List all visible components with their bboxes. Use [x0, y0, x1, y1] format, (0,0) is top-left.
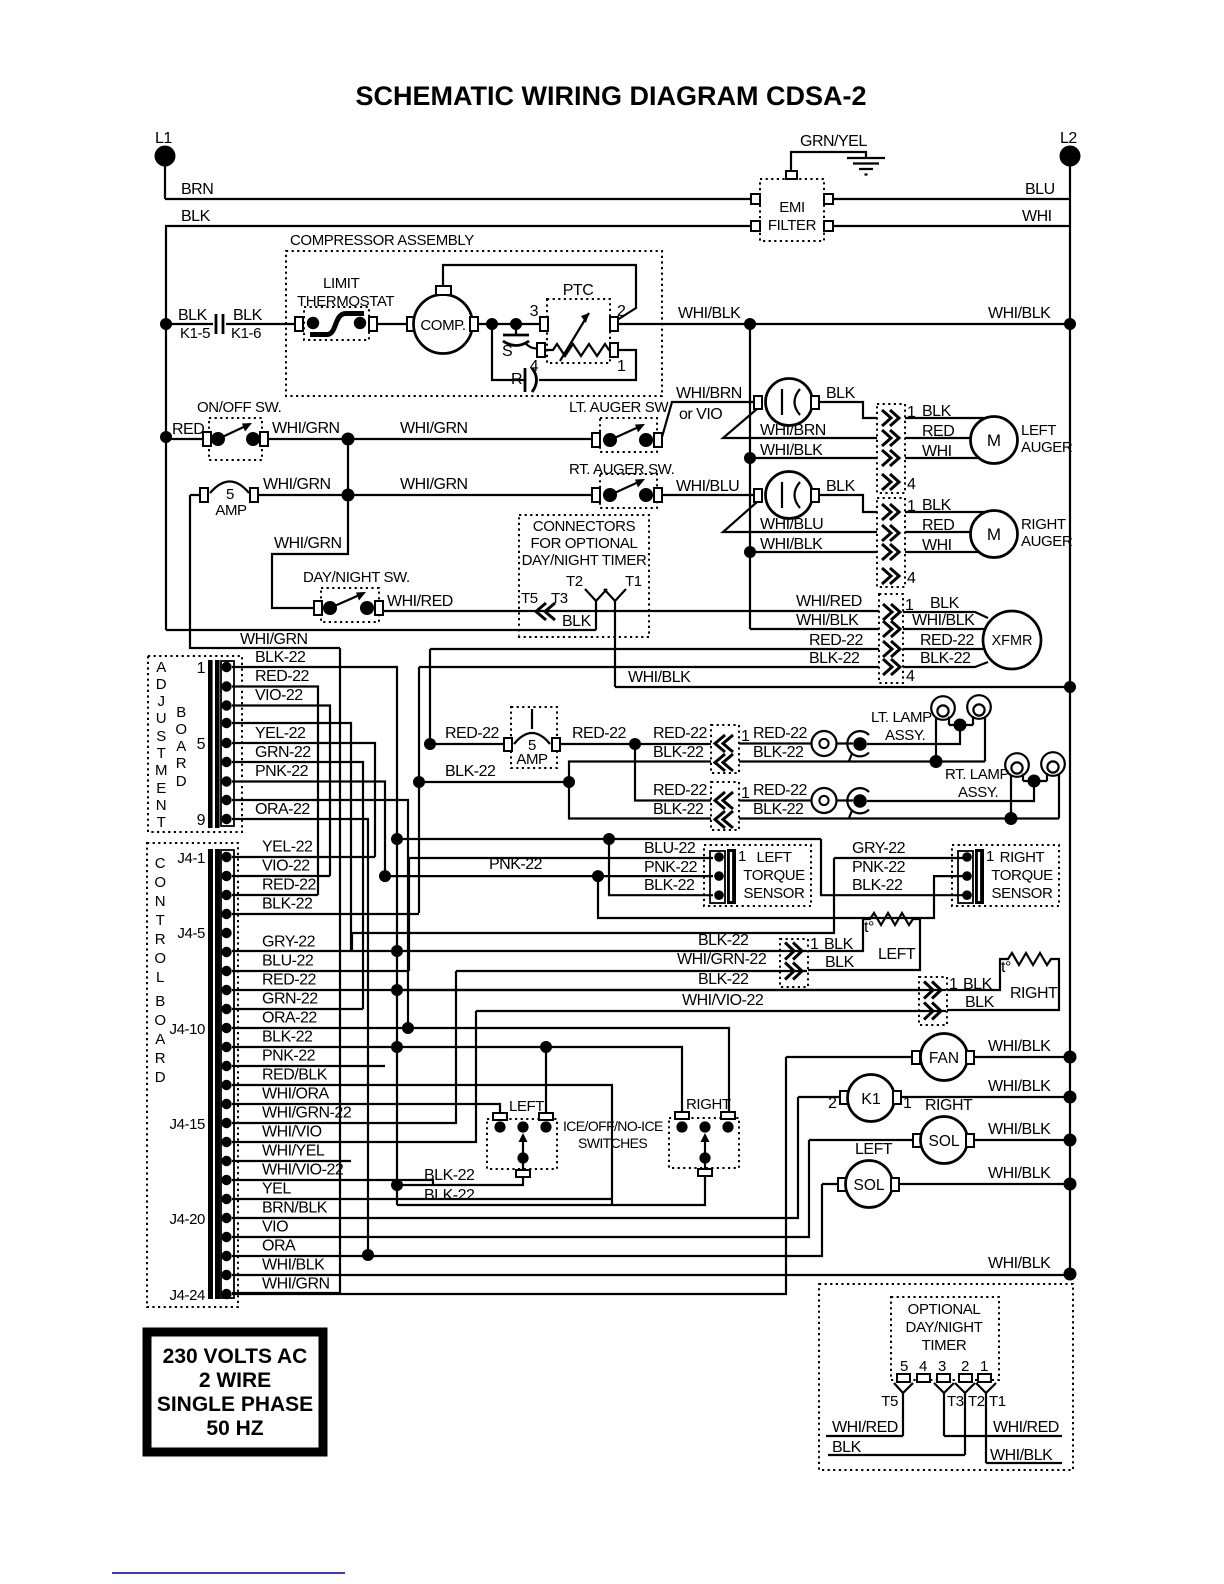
svg-text:BLK-22: BLK-22: [852, 877, 903, 894]
svg-text:M: M: [987, 431, 1001, 450]
adjustment board pins: [221, 662, 231, 824]
svg-text:T2: T2: [968, 1393, 985, 1410]
control board label2: [154, 993, 165, 1086]
wire J4-3 RED-22: [232, 877, 318, 896]
fuse F2 5 AMP: [504, 707, 560, 768]
right torque sensor: [952, 845, 1059, 906]
svg-text:O: O: [175, 721, 186, 738]
svg-text:WHI/GRN-22: WHI/GRN-22: [677, 951, 767, 968]
svg-text:LIMIT: LIMIT: [323, 275, 360, 292]
fork T2 timer: [955, 1383, 985, 1455]
svg-text:WHI/BRN: WHI/BRN: [676, 385, 742, 402]
svg-text:WHI/ORA: WHI/ORA: [262, 1086, 330, 1103]
svg-text:FAN: FAN: [929, 1050, 959, 1067]
svg-text:BLK-22: BLK-22: [653, 801, 704, 818]
svg-text:t°: t°: [864, 919, 874, 936]
svg-text:4: 4: [906, 668, 915, 685]
svg-text:BLK-22: BLK-22: [698, 971, 749, 988]
wire adjustment pin PNK-22: [232, 763, 385, 876]
svg-text:BLU-22: BLU-22: [262, 953, 314, 970]
svg-text:LT. LAMP: LT. LAMP: [871, 709, 932, 726]
svg-text:RIGHT: RIGHT: [925, 1097, 973, 1114]
wire COMP top to PTC pin2: [443, 265, 636, 322]
svg-text:TIMER: TIMER: [922, 1337, 967, 1354]
motor M1 left auger: [971, 417, 1073, 464]
wire GRY-22 to right torque sensor: [834, 840, 966, 858]
svg-text:WHI/GRN: WHI/GRN: [262, 1276, 330, 1293]
svg-text:ICE/OFF/NO-ICE: ICE/OFF/NO-ICE: [563, 1118, 663, 1134]
junction dot WHI/BLK feed row1: [744, 452, 756, 464]
motor M2 right auger: [971, 511, 1073, 558]
svg-text:3: 3: [530, 303, 539, 320]
connector fork T1: [604, 573, 642, 687]
svg-text:BLK: BLK: [562, 613, 592, 630]
wire adjustment pin RED-22: [232, 668, 318, 895]
svg-text:WHI/GRN: WHI/GRN: [263, 476, 331, 493]
svg-text:or VIO: or VIO: [679, 406, 722, 423]
svg-text:PNK-22: PNK-22: [489, 856, 543, 873]
wire BLK-22 right ice label: [424, 1187, 475, 1204]
svg-text:BLK-22: BLK-22: [262, 896, 313, 913]
svg-text:M: M: [155, 762, 167, 779]
svg-text:BRN: BRN: [181, 181, 213, 198]
wire J4-7 BLU-22: [232, 953, 409, 972]
PTC box: [530, 282, 626, 375]
svg-text:T: T: [157, 814, 166, 831]
wire RED-22 xfmr row3: [430, 632, 983, 649]
svg-text:J4-15: J4-15: [169, 1116, 205, 1133]
junction dot left ice right branch: [540, 1041, 552, 1053]
lamp bulb RT1: [1005, 753, 1029, 818]
connector CN2 right auger: [877, 498, 916, 587]
wire fuse left down WHI/GRN: [190, 495, 340, 648]
wire J4-1 YEL-22: [232, 839, 375, 858]
wire J4-24 WHI/GRN: [232, 1057, 786, 1294]
wire WHI/GRN row1: [268, 420, 593, 439]
connector CN1 left auger: [877, 404, 916, 493]
svg-text:WHI/YEL: WHI/YEL: [262, 1143, 325, 1160]
footer line: [112, 1572, 345, 1574]
svg-text:WHI/BLU: WHI/BLU: [676, 478, 739, 495]
svg-text:K1-5: K1-5: [180, 325, 210, 342]
wire BLK-22 to lt lamp: [569, 744, 711, 782]
svg-text:LT. AUGER SW.: LT. AUGER SW.: [569, 399, 671, 416]
svg-text:BLK: BLK: [826, 385, 856, 402]
svg-text:2 WIRE: 2 WIRE: [199, 1369, 271, 1392]
svg-text:WHI/BLK: WHI/BLK: [628, 669, 691, 686]
wire adjustment pin wire: [232, 800, 408, 1028]
wire RED-22 bus vertical: [429, 649, 431, 744]
wire BLK connector to right auger motor: [905, 497, 986, 514]
junction dot left rail RED row: [160, 431, 172, 443]
svg-text:WHI/GRN: WHI/GRN: [274, 535, 342, 552]
svg-text:RED-22: RED-22: [262, 877, 317, 894]
svg-text:AUGER: AUGER: [1021, 533, 1073, 550]
fork T1 timer: [976, 1383, 1006, 1463]
svg-text:U: U: [156, 710, 166, 727]
wire BLK timer: [828, 1439, 965, 1456]
adjustment board label: [155, 659, 167, 831]
svg-text:AMP: AMP: [516, 751, 548, 768]
wire BLK EMI filter to left rail: [166, 208, 752, 630]
svg-text:ON/OFF SW.: ON/OFF SW.: [197, 399, 281, 416]
switch DAY/NIGHT SW.: [303, 569, 410, 622]
wire WHI/BLK vertical feed: [749, 324, 751, 629]
junction dot BLK bus 839: [391, 833, 403, 845]
svg-text:WHI/BLK: WHI/BLK: [796, 612, 859, 629]
wire GRY-22 riser to right sensor: [352, 858, 834, 951]
svg-text:J4-20: J4-20: [169, 1211, 205, 1228]
wire J4-4 BLK-22: [232, 896, 419, 915]
svg-text:GRN/YEL: GRN/YEL: [800, 133, 867, 150]
svg-text:WHI/BLK: WHI/BLK: [988, 305, 1051, 322]
svg-text:BLK-22: BLK-22: [753, 801, 804, 818]
svg-text:9: 9: [197, 812, 206, 829]
timer pin 2: [959, 1358, 972, 1382]
svg-text:BLK-22: BLK-22: [653, 744, 704, 761]
junction dot WHI/GRN row2: [342, 489, 355, 502]
wire left ice bottom: [397, 1163, 523, 1185]
svg-text:SCHEMATIC WIRING DIAGRAM CDSA-: SCHEMATIC WIRING DIAGRAM CDSA-2: [356, 81, 867, 111]
capacitor S: [502, 324, 539, 360]
svg-text:BLK: BLK: [178, 307, 208, 324]
wire J4-19 YEL: [232, 1181, 612, 1200]
solenoid RIGHT SOL: [809, 1097, 974, 1164]
svg-text:S: S: [156, 728, 166, 745]
fan motor FAN: [786, 1034, 974, 1081]
svg-text:PNK-22: PNK-22: [255, 763, 309, 780]
svg-text:T: T: [156, 912, 165, 929]
wire WHI/GRN-22 to left temp sensor: [456, 951, 807, 971]
svg-text:A: A: [156, 659, 166, 676]
svg-text:FILTER: FILTER: [768, 217, 817, 234]
wire RED-22 to rt lamp: [635, 744, 711, 801]
svg-text:BRN/BLK: BRN/BLK: [262, 1200, 328, 1217]
timer pin 5: [897, 1358, 910, 1382]
wire WHI/BLK left sol to rail: [899, 1165, 1070, 1184]
svg-text:RIGHT: RIGHT: [686, 1096, 731, 1113]
wire PNK-22 detour to right sensor: [598, 859, 966, 918]
svg-text:D: D: [156, 676, 167, 693]
junction dot RT lamp bottom: [1005, 812, 1018, 825]
svg-text:RIGHT: RIGHT: [1010, 985, 1058, 1002]
limit thermostat: [295, 275, 394, 340]
junction dot BLK 990: [391, 984, 403, 996]
lamp socket RT: [847, 788, 869, 818]
svg-text:BLU: BLU: [1025, 181, 1055, 198]
wire adjustment pin YEL-22: [232, 725, 375, 857]
thermistor RIGHT t: [947, 953, 1059, 1011]
wire WHI/BLU rt auger to cap2: [662, 478, 755, 495]
svg-text:RED/BLK: RED/BLK: [262, 1067, 328, 1084]
svg-text:BLK-22: BLK-22: [445, 763, 496, 780]
wire J4-2 VIO-22: [232, 858, 330, 877]
connector CN6 left temp: [780, 936, 819, 987]
svg-text:BLK: BLK: [965, 994, 995, 1011]
svg-text:RIGHT: RIGHT: [1021, 516, 1066, 533]
wire adjustment pin wire: [232, 723, 351, 951]
svg-text:BLK-22: BLK-22: [424, 1187, 475, 1204]
wire WHI/RED timer left: [826, 1419, 903, 1436]
svg-text:R: R: [155, 1050, 166, 1067]
svg-text:SINGLE PHASE: SINGLE PHASE: [157, 1393, 313, 1416]
wire WHI/BLK right sol to rail: [974, 1121, 1070, 1140]
svg-text:SENSOR: SENSOR: [744, 885, 806, 902]
svg-text:1: 1: [197, 660, 206, 677]
junction dot BLK-22 J4-11: [391, 1041, 403, 1053]
svg-text:LEFT: LEFT: [855, 1141, 893, 1158]
wire RED-22 bus to fuse: [430, 725, 504, 744]
wire WHI/BLK J4-23 label: [988, 1255, 1051, 1272]
compressor motor COMP: [407, 286, 478, 354]
wire BLK cap2 to connector: [819, 478, 877, 512]
svg-text:RED-22: RED-22: [262, 972, 317, 989]
wire WHI/BLK T1 to right rail: [615, 669, 1070, 687]
svg-text:WHI/RED: WHI/RED: [796, 593, 862, 610]
svg-text:5: 5: [900, 1358, 908, 1375]
svg-text:BLU-22: BLU-22: [644, 840, 696, 857]
svg-text:DAY/NIGHT SW.: DAY/NIGHT SW.: [303, 569, 410, 586]
wire GRN/YEL: [791, 133, 867, 171]
wire WHI/RED day/night to XFMR connector: [383, 593, 879, 611]
wire BLK-22 bus to lamps: [419, 763, 569, 782]
wire adjustment pin VIO-22: [232, 687, 330, 876]
connector CN4 lt lamp: [711, 725, 750, 773]
svg-text:WHI/BRN: WHI/BRN: [760, 422, 826, 439]
svg-text:COMPRESSOR ASSEMBLY: COMPRESSOR ASSEMBLY: [290, 232, 474, 249]
wire BRN L1 to EMI filter: [165, 181, 752, 199]
svg-text:ORA-22: ORA-22: [262, 1010, 317, 1027]
svg-text:VIO-22: VIO-22: [255, 687, 303, 704]
svg-text:WHI: WHI: [1022, 208, 1052, 225]
wire PNK-22 to left torque sensor: [385, 856, 713, 876]
svg-text:YEL: YEL: [262, 1181, 291, 1198]
junction dot PNK detour: [592, 870, 604, 882]
svg-text:L1: L1: [155, 130, 172, 147]
lamp socket LT: [847, 731, 869, 761]
wire WHI EMI filter to right rail: [832, 208, 1070, 226]
svg-text:N: N: [156, 797, 166, 814]
switch right ice/off/no-ice: [669, 1096, 739, 1176]
fuse F1 5 AMP: [190, 482, 258, 520]
wire RED-22 cn4 to socket: [739, 725, 853, 744]
wire BLK-22 to left temp sensor label: [698, 932, 749, 949]
left torque sensor: [704, 845, 811, 906]
wire BLK-22 left ice label: [424, 1167, 475, 1184]
svg-text:J: J: [157, 693, 164, 710]
switch LT. AUGER SW.: [569, 399, 671, 452]
svg-text:R: R: [176, 755, 187, 772]
wire WHI/BLK main row to right rail: [618, 305, 1070, 324]
wire BLK-22 to right temp sensor: [397, 971, 946, 990]
svg-text:SWITCHES: SWITCHES: [578, 1135, 647, 1151]
svg-text:SOL: SOL: [853, 1177, 884, 1194]
wire BLK-22 bus vertical: [418, 667, 420, 913]
svg-text:T2: T2: [566, 573, 583, 590]
timer pin 3: [937, 1358, 950, 1382]
svg-text:2: 2: [961, 1358, 969, 1375]
svg-text:T1: T1: [989, 1393, 1006, 1410]
junction dot BLK 951: [391, 945, 403, 957]
wire J4-20 BRN/BLK: [232, 1097, 798, 1218]
control board: [147, 843, 238, 1307]
svg-text:B: B: [176, 704, 186, 721]
svg-text:T3: T3: [947, 1393, 964, 1410]
wire WHI/GRN vertical rows1-2 to day/night: [272, 439, 348, 608]
svg-text:RIGHT: RIGHT: [1000, 849, 1045, 866]
svg-text:ASSY.: ASSY.: [885, 727, 925, 744]
wire socket to bulbs LT: [867, 725, 973, 744]
svg-text:A: A: [176, 738, 186, 755]
svg-text:RT. AUGER SW.: RT. AUGER SW.: [569, 461, 674, 478]
svg-text:BLK: BLK: [826, 478, 856, 495]
wire J4-11 BLK-22: [232, 1029, 682, 1113]
svg-text:RED-22: RED-22: [653, 782, 708, 799]
svg-text:BLK-22: BLK-22: [809, 650, 860, 667]
svg-text:1: 1: [738, 848, 746, 865]
wire BLK-22 cn5 to socket shell: [739, 801, 1059, 819]
junction dot BLK lamp split: [563, 776, 575, 788]
wire J4-15 WHI/GRN-22: [232, 971, 456, 1123]
svg-text:A: A: [155, 1031, 165, 1048]
svg-text:WHI/VIO-22: WHI/VIO-22: [262, 1162, 344, 1179]
connectors for optional day/night timer box: [519, 515, 649, 637]
svg-text:J4-1: J4-1: [177, 850, 205, 867]
wire WHI/BLK WHI row: [750, 442, 979, 460]
timer pin 1: [978, 1358, 991, 1382]
wire WHI/GRN row2: [258, 476, 593, 495]
svg-text:BLK-22: BLK-22: [644, 877, 695, 894]
wire BLK-22 bus vertical: [396, 839, 398, 1205]
svg-text:WHI/BLK: WHI/BLK: [678, 305, 741, 322]
wire J4-10 ORA-22: [232, 1010, 729, 1113]
junction dots main row: [744, 318, 756, 330]
capacitor R: [492, 324, 636, 392]
svg-text:RED-22: RED-22: [653, 725, 708, 742]
wire COMP right to PTC pin3: [478, 323, 540, 325]
timer pin 4: [917, 1358, 930, 1382]
wire LT auger sw to run capacitor: [662, 385, 755, 437]
svg-text:GRY-22: GRY-22: [262, 934, 316, 951]
svg-text:4: 4: [907, 476, 916, 493]
wire BLK connector to left auger motor: [905, 403, 986, 420]
wire RED-22 cn5 to socket: [739, 782, 853, 801]
svg-text:CONNECTORS: CONNECTORS: [533, 518, 636, 535]
svg-text:WHI/VIO: WHI/VIO: [262, 1124, 322, 1141]
wire BLU-22 riser to left torque sensor: [409, 840, 713, 971]
svg-text:2: 2: [828, 1095, 837, 1112]
wire BLK cap1 to connector: [819, 385, 877, 418]
svg-text:50 HZ: 50 HZ: [206, 1417, 263, 1440]
svg-text:O: O: [154, 874, 165, 891]
junction dot PNK bus: [379, 870, 391, 882]
svg-text:GRN-22: GRN-22: [262, 991, 318, 1008]
svg-text:RED-22: RED-22: [255, 668, 310, 685]
junction dot ORA bus: [402, 1022, 414, 1034]
wire socket to bulbs RT: [867, 781, 1047, 801]
wire J4-13 RED/BLK: [232, 1067, 612, 1206]
svg-text:K1: K1: [861, 1091, 881, 1108]
svg-text:L2: L2: [1060, 130, 1077, 147]
wire J4-6 GRY-22: [232, 934, 807, 952]
junction dot left rail compressor row: [160, 318, 172, 330]
PTC thermistor symbol: [545, 313, 610, 361]
junction dot BLK drop 609: [603, 833, 615, 845]
svg-text:RED: RED: [172, 421, 204, 438]
svg-text:O: O: [154, 1012, 165, 1029]
wire BLK-22 xfmr row4: [419, 650, 988, 667]
svg-text:WHI/BLK: WHI/BLK: [988, 1038, 1051, 1055]
svg-text:WHI/BLK: WHI/BLK: [988, 1121, 1051, 1138]
run capacitor C2: [754, 472, 819, 519]
svg-text:BLK-22: BLK-22: [255, 649, 306, 666]
svg-text:L: L: [156, 969, 164, 986]
wire J4-14 WHI/ORA: [232, 1086, 500, 1114]
wire right ice bottom: [397, 1162, 705, 1205]
svg-text:BLK: BLK: [832, 1439, 862, 1456]
svg-text:3: 3: [938, 1358, 946, 1375]
transformer XFMR: [983, 611, 1041, 669]
svg-text:SENSOR: SENSOR: [992, 885, 1054, 902]
wire WHI/BLU RED row: [723, 502, 971, 534]
svg-text:GRY-22: GRY-22: [852, 840, 906, 857]
wire J4-18 WHI/VIO-22: [232, 1162, 433, 1186]
svg-text:1: 1: [617, 358, 626, 375]
svg-text:WHI/GRN: WHI/GRN: [400, 476, 468, 493]
svg-text:OPTIONAL: OPTIONAL: [908, 1301, 981, 1318]
wire BLK-22 drop to left sensor pin3: [609, 839, 713, 895]
relay K1: [798, 1075, 912, 1122]
svg-text:WHI/BLU: WHI/BLU: [760, 516, 823, 533]
svg-text:FOR OPTIONAL: FOR OPTIONAL: [531, 535, 638, 552]
svg-text:O: O: [154, 950, 165, 967]
label 230 volts box: [147, 1332, 323, 1452]
svg-text:230 VOLTS AC: 230 VOLTS AC: [163, 1345, 308, 1368]
connector CN5 rt lamp: [711, 782, 750, 830]
svg-text:J4-10: J4-10: [169, 1021, 205, 1038]
svg-text:ASSY.: ASSY.: [958, 784, 998, 801]
connector CN3 transformer: [879, 594, 915, 685]
svg-text:LEFT: LEFT: [756, 849, 791, 866]
svg-text:WHI/GRN: WHI/GRN: [240, 631, 308, 648]
junction dot RED bus: [424, 738, 436, 750]
run capacitor C1: [754, 379, 819, 426]
connector T5 T3 chevrons: [521, 590, 568, 620]
wire adjustment pin ORA-22: [232, 801, 368, 1255]
svg-text:R: R: [155, 931, 166, 948]
svg-text:TORQUE: TORQUE: [991, 867, 1053, 884]
svg-text:BLK-22: BLK-22: [920, 650, 971, 667]
lamp bulb RT2: [1041, 752, 1065, 818]
svg-text:RED-22: RED-22: [809, 632, 864, 649]
solenoid LEFT SOL: [822, 1141, 899, 1208]
svg-text:4: 4: [907, 570, 916, 587]
svg-text:T5: T5: [521, 590, 538, 607]
junction dot BLK bus 782: [413, 776, 425, 788]
EMI filter U-EMI: [751, 171, 833, 241]
svg-text:VIO: VIO: [262, 1219, 288, 1236]
wire BLK xfmr row1: [903, 595, 988, 618]
junction dot right rail 687: [1064, 681, 1076, 693]
svg-text:5: 5: [226, 486, 234, 503]
svg-text:WHI/GRN-22: WHI/GRN-22: [262, 1105, 352, 1122]
svg-text:SOL: SOL: [928, 1133, 959, 1150]
svg-text:BLK: BLK: [930, 595, 960, 612]
svg-text:E: E: [156, 780, 166, 797]
svg-text:RED-22: RED-22: [920, 632, 975, 649]
svg-text:1: 1: [980, 1358, 988, 1375]
svg-text:RED-22: RED-22: [572, 725, 627, 742]
